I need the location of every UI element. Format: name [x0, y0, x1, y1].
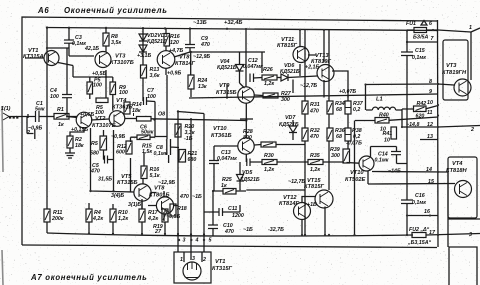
svg-text:3(1)Б: 3(1)Б: [128, 202, 141, 208]
svg-text:~1Б: ~1Б: [192, 194, 202, 200]
svg-text:„Б3,15А“: „Б3,15А“: [407, 240, 432, 246]
svg-text:100: 100: [119, 90, 128, 96]
svg-text:+4,7Б: +4,7Б: [169, 48, 183, 54]
svg-text:А6: А6: [37, 6, 49, 15]
svg-text:VT3: VT3: [446, 63, 457, 69]
svg-text:1,2к: 1,2к: [264, 167, 274, 173]
svg-text:R42: R42: [417, 101, 427, 107]
svg-text:КТ815Г: КТ815Г: [304, 184, 325, 190]
svg-text:1к: 1к: [58, 122, 64, 128]
svg-text:100: 100: [93, 83, 102, 89]
svg-text:~13Б: ~13Б: [193, 20, 207, 26]
svg-text:R35: R35: [310, 153, 321, 159]
svg-text:0,047мк: 0,047мк: [217, 156, 237, 162]
svg-text:КТ315Б: КТ315Б: [216, 90, 237, 96]
svg-text:~12,7Б: ~12,7Б: [300, 83, 317, 89]
svg-text:3,6к: 3,6к: [150, 73, 160, 79]
svg-text:12: 12: [427, 122, 433, 128]
svg-text:5мк: 5мк: [35, 107, 45, 113]
svg-text:1,2к: 1,2к: [310, 167, 320, 173]
svg-text:1к: 1к: [221, 183, 227, 189]
svg-text:13к: 13к: [198, 84, 207, 90]
svg-text:~1Б: ~1Б: [243, 227, 253, 233]
svg-text:R40: R40: [379, 113, 389, 119]
svg-text:VT3: VT3: [115, 54, 126, 60]
svg-text:VT10: VT10: [350, 170, 364, 176]
svg-text:470: 470: [90, 169, 100, 175]
svg-text:R1: R1: [57, 107, 64, 113]
svg-text:0,1мк: 0,1мк: [154, 151, 168, 157]
svg-text:КТ315А: КТ315А: [23, 54, 44, 60]
svg-text:0,2: 0,2: [353, 107, 360, 113]
svg-text:600: 600: [116, 150, 125, 156]
svg-text:КТ502Е: КТ502Е: [345, 177, 366, 183]
svg-text:~12,9Б: ~12,9Б: [193, 54, 210, 60]
svg-text:КТ3107Б: КТ3107Б: [110, 60, 134, 66]
svg-text:1(1): 1(1): [1, 106, 11, 112]
svg-text:R30: R30: [264, 153, 274, 159]
svg-text:4: 4: [195, 238, 199, 244]
svg-text:R5: R5: [91, 141, 99, 147]
svg-text:VT9: VT9: [219, 83, 230, 89]
svg-text:VD7: VD7: [285, 115, 296, 121]
svg-text:~14,8: ~14,8: [406, 122, 419, 128]
svg-text:1,2к: 1,2к: [118, 216, 128, 222]
svg-text:300: 300: [281, 97, 290, 103]
svg-text:КД521Б: КД521Б: [217, 65, 237, 71]
svg-text:3(4)Б: 3(4)Б: [111, 193, 124, 199]
svg-text:VT4: VT4: [116, 98, 127, 104]
svg-text:R41: R41: [383, 131, 393, 137]
svg-text:3: 3: [192, 256, 195, 262]
svg-text:6: 6: [429, 21, 432, 27]
svg-text:БЗ/5А: БЗ/5А: [413, 35, 429, 41]
svg-text:+2,1Б: +2,1Б: [305, 65, 319, 71]
svg-text:+0,5Б: +0,5Б: [92, 71, 106, 77]
svg-text:42,1Б: 42,1Б: [84, 46, 99, 52]
svg-text:1: 1: [469, 25, 472, 31]
svg-text:580: 580: [90, 151, 99, 157]
svg-text:КТ361Б: КТ361Б: [211, 133, 232, 139]
svg-text:+0,9Б: +0,9Б: [167, 71, 181, 77]
svg-text:18к: 18к: [75, 143, 84, 149]
svg-text:R26: R26: [263, 67, 273, 73]
svg-text:КТ315Г: КТ315Г: [212, 266, 233, 272]
svg-text:68: 68: [336, 107, 342, 113]
svg-text:16: 16: [424, 209, 430, 215]
svg-text:R18: R18: [177, 206, 187, 212]
svg-text:Оконечный усилитель: Оконечный усилитель: [64, 6, 168, 15]
svg-text:68: 68: [336, 134, 342, 140]
svg-text:~0,9Б: ~0,9Б: [111, 134, 125, 140]
svg-text:VT10: VT10: [213, 126, 227, 132]
svg-text:4,2к: 4,2к: [92, 216, 103, 222]
svg-text:3: 3: [469, 232, 472, 238]
svg-text:1200: 1200: [232, 213, 244, 219]
svg-text:~12,7Б: ~12,7Б: [288, 179, 305, 185]
svg-text:+32,4Б: +32,4Б: [224, 20, 242, 26]
svg-text:VT4: VT4: [452, 161, 463, 167]
svg-text:-32,7Б: -32,7Б: [268, 227, 284, 233]
svg-text:VT8: VT8: [154, 186, 165, 192]
svg-text:КТ815Г: КТ815Г: [277, 43, 298, 49]
svg-text:3: 3: [183, 238, 186, 244]
svg-text:3,5к: 3,5к: [111, 40, 121, 46]
svg-text:1,2к: 1,2к: [264, 81, 274, 87]
svg-text:КД521Б: КД521Б: [280, 69, 300, 75]
svg-text:300: 300: [331, 153, 340, 159]
svg-text:О8: О8: [158, 112, 165, 118]
svg-text:10: 10: [384, 138, 390, 144]
svg-text:470: 470: [179, 194, 189, 200]
svg-text:0,1мк: 0,1мк: [375, 158, 389, 164]
svg-text:L1: L1: [376, 97, 383, 103]
svg-text:VT1: VT1: [215, 259, 225, 265]
svg-text:А7 оконечный усилитель: А7 оконечный усилитель: [30, 273, 148, 282]
svg-text:КТ819ГН: КТ819ГН: [442, 70, 467, 76]
svg-text:470: 470: [309, 109, 319, 115]
svg-text:0,1мк: 0,1мк: [412, 200, 426, 206]
svg-text:0,1мк: 0,1мк: [412, 55, 426, 61]
svg-text:2: 2: [470, 127, 474, 133]
svg-text:+1Б: +1Б: [307, 202, 317, 208]
svg-text:11: 11: [427, 110, 433, 116]
svg-text:31,5Б: 31,5Б: [98, 177, 112, 183]
svg-text:4,2к: 4,2к: [147, 216, 158, 222]
svg-text:С15: С15: [415, 48, 426, 54]
svg-text:С16: С16: [415, 193, 425, 199]
svg-text:200к: 200к: [51, 216, 64, 222]
svg-text:FU1: FU1: [406, 21, 416, 27]
svg-text:2: 2: [202, 257, 206, 263]
svg-text:1: 1: [180, 257, 183, 263]
svg-text:10: 10: [427, 100, 433, 106]
svg-text:С11: С11: [228, 206, 237, 212]
svg-text:5,1к: 5,1к: [150, 173, 160, 179]
svg-text:27: 27: [154, 229, 162, 235]
svg-text:КД521Б: КД521Б: [240, 177, 260, 183]
svg-text:800: 800: [243, 135, 252, 141]
svg-text:470: 470: [309, 134, 319, 140]
svg-text:470: 470: [224, 229, 234, 235]
svg-text:100: 100: [50, 94, 59, 100]
svg-text:КТ818Н: КТ818Н: [446, 168, 468, 174]
svg-text:120: 120: [170, 40, 179, 46]
svg-text:100: 100: [147, 94, 156, 100]
svg-text:КТ315Б: КТ315Б: [117, 180, 138, 186]
svg-text:+3,1Б: +3,1Б: [137, 53, 151, 59]
svg-text:680: 680: [188, 157, 197, 163]
svg-text:R31: R31: [310, 102, 320, 108]
svg-text:470: 470: [200, 42, 210, 48]
svg-text:9: 9: [429, 89, 432, 95]
svg-text:КТ814Г: КТ814Г: [175, 61, 196, 67]
